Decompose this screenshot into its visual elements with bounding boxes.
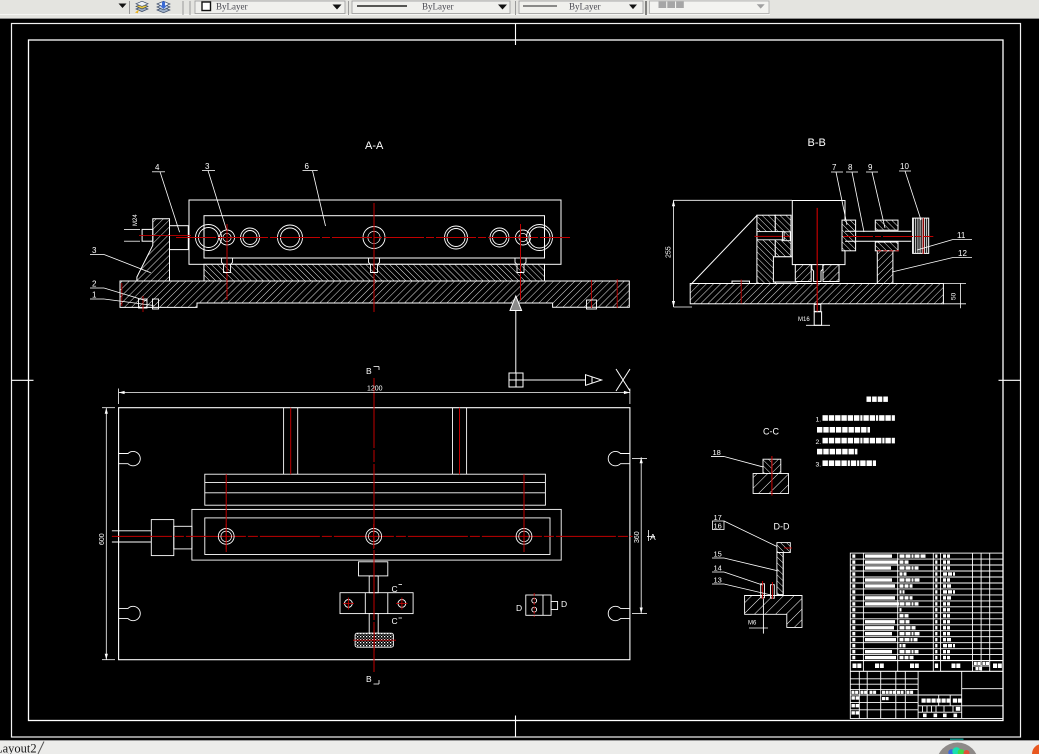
bom row 13	[852, 626, 855, 629]
bom row 17	[852, 650, 855, 653]
pin	[222, 258, 233, 272]
plate outline	[119, 408, 630, 660]
svg-text:2: 2	[92, 280, 97, 289]
svg-text:B: B	[366, 674, 372, 684]
svg-text:14: 14	[714, 564, 722, 573]
bom row 15	[852, 638, 855, 641]
color combo	[195, 1, 345, 14]
bom row 4	[852, 572, 855, 575]
hole	[278, 225, 303, 250]
slide bolt	[218, 529, 234, 545]
svg-text:A: A	[650, 532, 656, 542]
svg-text:50: 50	[951, 292, 958, 300]
layer icon 2	[157, 1, 170, 13]
slide inner	[205, 518, 550, 555]
pin lower	[814, 304, 821, 311]
bom row 1	[852, 554, 855, 557]
plan view	[119, 408, 630, 660]
svg-text:16: 16	[714, 522, 722, 531]
title block	[850, 671, 1003, 718]
svg-text:B-B: B-B	[808, 137, 826, 149]
bom row 7	[852, 590, 855, 593]
small bolt right	[587, 300, 597, 309]
svg-text:ByLayer: ByLayer	[422, 2, 454, 12]
svg-text:3.: 3.	[816, 461, 822, 468]
posts	[283, 408, 285, 475]
bom row 6	[852, 584, 855, 587]
dim 255	[673, 200, 675, 307]
svg-text:M16: M16	[798, 317, 810, 323]
svg-text:8: 8	[848, 163, 853, 172]
svg-text:C: C	[392, 616, 398, 626]
X letter	[616, 369, 630, 391]
bom row 5	[852, 578, 855, 581]
svg-text:C-C: C-C	[763, 427, 779, 437]
main centerline	[112, 535, 633, 537]
l11	[953, 239, 972, 241]
post	[777, 553, 783, 595]
nut9b	[875, 242, 898, 251]
svg-text:D: D	[516, 603, 522, 613]
label 2	[90, 287, 104, 289]
hole	[490, 228, 509, 247]
svg-text:ByLayer: ByLayer	[216, 2, 248, 12]
slot left	[119, 451, 141, 465]
clamp shaft	[757, 232, 784, 240]
small bolt left	[139, 299, 148, 308]
shaft stub	[142, 229, 153, 241]
svg-text:255: 255	[666, 246, 673, 258]
svg-text:B: B	[366, 366, 372, 376]
small bolt left2	[153, 299, 159, 309]
d part	[526, 595, 551, 615]
hole	[527, 225, 553, 251]
slot right	[608, 451, 630, 465]
dim 600	[105, 408, 107, 660]
slot right	[608, 606, 630, 620]
svg-text:Layout2: Layout2	[0, 742, 37, 754]
base plate	[120, 281, 629, 307]
BOM table	[850, 553, 1003, 718]
clamp arm	[775, 215, 791, 257]
svg-text:D-D: D-D	[774, 522, 790, 532]
lineweight combo	[519, 1, 643, 14]
dim 1200	[119, 392, 630, 394]
svg-text:M24: M24	[133, 214, 139, 226]
base tab	[732, 281, 750, 283]
column	[757, 215, 775, 283]
label 1	[90, 298, 104, 300]
UCS icon	[509, 369, 630, 391]
svg-text:13: 13	[714, 576, 722, 585]
bom header	[853, 664, 857, 669]
separators	[182, 1, 184, 15]
A-A view	[120, 140, 629, 307]
svg-text:C: C	[392, 584, 398, 594]
shaft	[845, 230, 911, 232]
B section line	[373, 378, 375, 672]
nut9	[875, 220, 898, 230]
label 4	[152, 171, 165, 173]
svg-text:4: 4	[155, 163, 160, 172]
hole	[445, 226, 468, 249]
lower wedge right	[823, 265, 839, 282]
centering tick top	[515, 24, 517, 46]
svg-text:6: 6	[305, 162, 310, 171]
note line 2	[817, 427, 822, 433]
svg-text:3: 3	[92, 246, 97, 255]
svg-text:3: 3	[205, 162, 210, 171]
left block	[151, 520, 174, 556]
tech notes title	[867, 397, 872, 402]
bom row 18	[852, 656, 855, 659]
hole	[196, 225, 222, 251]
bom row 2	[852, 560, 855, 563]
bom row 11	[852, 614, 855, 617]
centerline	[176, 237, 570, 239]
pin1	[761, 584, 765, 598]
lower block	[753, 474, 788, 494]
upper nut left	[763, 459, 772, 473]
label 6	[303, 170, 318, 172]
svg-text:1.: 1.	[816, 416, 822, 423]
pin	[515, 258, 526, 272]
l12	[953, 257, 972, 259]
svg-text:360: 360	[634, 531, 641, 543]
toolbar background	[0, 0, 1039, 19]
pin	[369, 258, 380, 272]
bom row 12	[852, 620, 855, 623]
svg-text:18: 18	[713, 448, 721, 457]
notch	[773, 257, 796, 282]
orange icon sliver	[1032, 744, 1039, 754]
nut below	[814, 312, 821, 326]
slide bolt	[366, 529, 382, 545]
layer combo dropdown arrow	[119, 4, 127, 9]
column 12	[877, 251, 893, 284]
pin2	[771, 585, 775, 599]
l9	[866, 171, 878, 173]
bolt	[363, 227, 385, 249]
body outer rect	[189, 200, 561, 264]
plotstyle combo (disabled)	[650, 1, 770, 14]
centering tick right	[999, 379, 1021, 381]
red bolt axes	[226, 224, 228, 300]
workpiece block	[792, 201, 845, 265]
body inner rect	[204, 216, 545, 258]
slide bolt	[516, 529, 532, 545]
svg-text:1: 1	[92, 291, 97, 300]
centering tick left	[12, 379, 34, 381]
linetype combo	[352, 1, 510, 14]
c bracket	[359, 562, 388, 576]
bolt	[516, 230, 531, 245]
datum triangle	[510, 296, 522, 311]
svg-text:A-A: A-A	[365, 140, 384, 152]
post outline2	[782, 553, 784, 595]
washer right	[842, 220, 856, 251]
pin	[812, 265, 823, 282]
svg-text:12: 12	[958, 249, 967, 258]
bom row 3	[852, 566, 855, 569]
label 18	[711, 456, 724, 458]
bom row 9	[852, 602, 855, 605]
svg-text:600: 600	[99, 533, 106, 545]
bolt	[220, 230, 235, 245]
svg-text:M6: M6	[748, 621, 757, 627]
layer icon 1	[136, 1, 148, 11]
svg-text:1200: 1200	[367, 386, 383, 393]
bom row 14	[852, 632, 855, 635]
l8	[846, 171, 858, 173]
section line	[515, 311, 517, 373]
svg-text:D: D	[561, 599, 567, 609]
svg-text:ByLayer: ByLayer	[569, 2, 601, 12]
svg-text:2.: 2.	[816, 439, 822, 446]
status bar	[0, 741, 1039, 754]
hole	[241, 228, 260, 247]
base plate	[690, 284, 943, 304]
dock circle icon	[950, 738, 964, 740]
svg-text:9: 9	[868, 163, 873, 172]
centering tick bottom	[515, 716, 517, 738]
slot left	[119, 606, 141, 620]
note line 4	[817, 449, 822, 455]
base	[745, 596, 802, 628]
svg-text:7: 7	[832, 163, 837, 172]
upper nut right	[772, 459, 781, 473]
bom row 8	[852, 596, 855, 599]
label 3b	[90, 254, 104, 256]
label 3	[202, 170, 215, 172]
tb row labels	[852, 691, 855, 694]
svg-text:15: 15	[714, 550, 722, 559]
dim 360	[640, 457, 642, 613]
knurled knob	[913, 218, 929, 253]
l10	[899, 170, 911, 172]
svg-text:11: 11	[957, 231, 966, 240]
stepped plate	[205, 474, 546, 505]
left bracket	[137, 219, 170, 281]
bom row 16	[852, 644, 855, 647]
end cap	[170, 226, 189, 250]
lower wedge left	[795, 265, 811, 282]
pad	[355, 633, 393, 647]
flange	[777, 543, 790, 553]
slide outer	[192, 509, 561, 560]
l7	[831, 171, 843, 173]
top hatch strip	[204, 264, 545, 281]
gusset hypotenuse	[692, 216, 757, 284]
bom row 10	[852, 608, 855, 611]
dim 50	[960, 283, 962, 308]
tb middle labels	[922, 699, 926, 703]
svg-text:10: 10	[900, 162, 909, 171]
